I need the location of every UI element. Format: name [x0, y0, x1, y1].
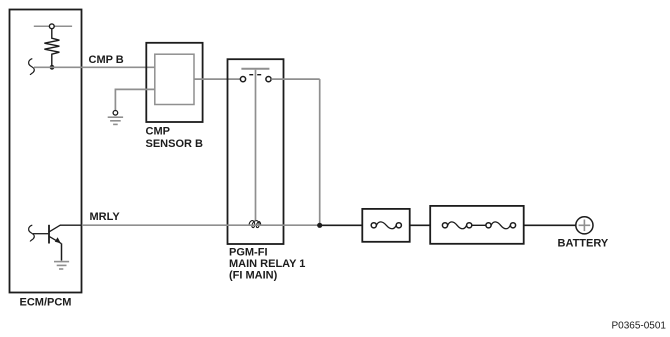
CMP SENSOR B inner element box [155, 54, 194, 104]
ECM/PCM box [10, 10, 82, 293]
transistor Q1 collector link to MRLY wire [60, 224, 82, 226]
wire fuse box 2 to battery [524, 224, 576, 226]
wire fuse 1 to fuse box 2 [410, 224, 431, 226]
ground symbol (sensor) [108, 117, 123, 124]
svg-text:MRLY: MRLY [90, 211, 121, 223]
svg-text:CMP: CMP [146, 126, 170, 138]
relay contact bar [241, 68, 269, 70]
wire break squiggle (MRLY base line) [29, 225, 35, 241]
wire down-feed to MRLY node [319, 79, 321, 223]
wire sensor ground branch [115, 89, 154, 110]
relay armature link (vertical to coil) [255, 70, 257, 220]
wire CMP B (ECM to sensor) [34, 66, 156, 68]
transistor Q1 base wire [33, 233, 48, 235]
wire MRLY (ECM to relay coil node) [81, 224, 320, 226]
fuse element F2a [442, 222, 471, 229]
fuse box 2 [430, 206, 524, 244]
transistor Q1 (NPN driver) [49, 225, 61, 244]
wire break squiggle (CMP B line) [29, 59, 35, 75]
terminal circle on top rail [49, 24, 54, 29]
svg-text:CMP B: CMP B [89, 54, 124, 66]
CMP SENSOR B outer box [146, 43, 202, 122]
svg-text:MAIN RELAY 1: MAIN RELAY 1 [229, 258, 305, 270]
node CMP B junction dot [50, 65, 55, 70]
fuse element F2b [486, 222, 516, 229]
ground symbol (transistor emitter) [54, 262, 69, 269]
transistor Q1 emitter arrow [55, 237, 61, 243]
relay contact terminal (right) [266, 77, 271, 82]
wire sensor output to relay contact [194, 78, 240, 80]
wire relay contact to down-feed [271, 78, 320, 80]
fuse element F1 [371, 222, 401, 229]
relay contact terminal (left) [240, 77, 245, 82]
battery terminal symbol [576, 217, 593, 234]
resistor pull-up top rail [34, 25, 72, 27]
wire node to fuse 1 [320, 224, 363, 226]
resistor R (pull-up) [44, 29, 59, 65]
wire link between fuse elements [472, 224, 486, 226]
svg-text:PGM-FI: PGM-FI [229, 247, 268, 259]
PGM-FI MAIN RELAY 1 box [228, 59, 284, 244]
battery plus sign [579, 220, 591, 232]
transistor Q1 emitter down wire [61, 243, 63, 260]
svg-text:P0365-0501: P0365-0501 [612, 321, 667, 332]
relay linkage dashes [249, 74, 261, 76]
node MRLY junction dot [317, 223, 322, 228]
svg-text:ECM/PCM: ECM/PCM [20, 296, 72, 308]
svg-text:(FI MAIN): (FI MAIN) [229, 270, 278, 282]
relay coil L1 [249, 221, 261, 228]
svg-text:SENSOR B: SENSOR B [146, 138, 204, 150]
svg-text:BATTERY: BATTERY [558, 238, 609, 250]
ground terminal circle (sensor) [113, 111, 118, 116]
fuse box 1 [362, 209, 409, 242]
